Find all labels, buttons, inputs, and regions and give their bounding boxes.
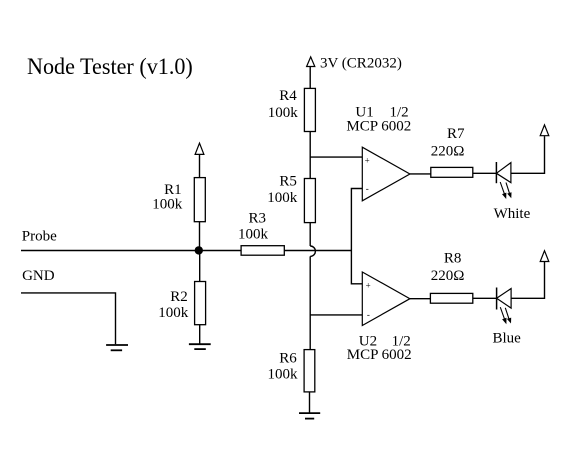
svg-text:Node Tester (v1.0): Node Tester (v1.0) — [27, 54, 193, 80]
ground R2 — [189, 343, 211, 345]
power flag above R1 — [195, 143, 204, 154]
wire GND lead — [21, 293, 116, 344]
LED blue arrows — [500, 307, 504, 319]
svg-text:220Ω: 220Ω — [431, 144, 465, 160]
svg-text:100k: 100k — [268, 105, 299, 121]
wire U2 output — [410, 298, 431, 300]
wire probe horizontal — [21, 250, 351, 252]
wire R2 to ground — [199, 325, 201, 345]
ground R6 — [299, 412, 320, 414]
svg-text:R8: R8 — [444, 251, 462, 267]
resistor R4 — [304, 88, 315, 131]
svg-text:100k: 100k — [267, 190, 298, 206]
svg-text:White: White — [494, 206, 531, 222]
svg-text:+: + — [366, 281, 371, 291]
svg-text:R4: R4 — [279, 88, 297, 104]
wire U1 plus input from R4/R5 node — [310, 156, 362, 158]
wire flag to R1 — [199, 155, 201, 178]
svg-text:220Ω: 220Ω — [431, 268, 465, 284]
svg-text:3V (CR2032): 3V (CR2032) — [320, 56, 402, 72]
svg-text:R3: R3 — [249, 211, 267, 227]
LED white: triangle — [496, 163, 511, 183]
svg-text:100k: 100k — [152, 196, 183, 212]
power flag blue LED — [540, 251, 549, 262]
wire R5 down to hop — [309, 223, 311, 246]
LED blue: triangle — [497, 289, 512, 309]
wire flag to R4 — [309, 67, 311, 89]
wire LED to power flag — [511, 136, 545, 173]
svg-text:R6: R6 — [279, 350, 297, 366]
wire U1 output — [410, 173, 431, 175]
svg-text:-: - — [367, 310, 370, 320]
resistor R3 — [241, 246, 284, 256]
op-amp U1 — [362, 147, 410, 201]
svg-text:MCP 6002: MCP 6002 — [346, 118, 411, 134]
svg-text:+: + — [365, 155, 370, 165]
resistor R7 — [431, 167, 473, 177]
ground GND — [106, 344, 128, 346]
op-amp U2 — [362, 272, 410, 326]
svg-text:R7: R7 — [447, 126, 465, 142]
wire R6 to ground — [309, 392, 311, 413]
resistor R8 — [430, 293, 472, 303]
svg-text:Blue: Blue — [493, 331, 522, 347]
LED blue: cathode bar — [496, 288, 498, 310]
wire hop over probe line — [310, 246, 315, 256]
wire R1 to probe — [199, 222, 201, 251]
svg-text:100k: 100k — [158, 305, 189, 321]
power flag 3V — [307, 57, 315, 67]
wire U1 minus input down to U2 plus input — [351, 189, 362, 284]
svg-text:-: - — [366, 184, 369, 194]
wire probe to R2 — [199, 251, 201, 282]
svg-text:MCP 6002: MCP 6002 — [347, 347, 412, 363]
svg-text:Probe: Probe — [22, 228, 57, 244]
LED white arrows — [500, 182, 504, 194]
wire U2 minus input from R5/R6 node — [310, 314, 362, 316]
node junction dot — [195, 246, 203, 254]
resistor R6 — [304, 350, 315, 392]
svg-text:R5: R5 — [279, 174, 297, 190]
resistor R5 — [304, 179, 315, 223]
wire R7 to LED — [473, 172, 497, 174]
svg-text:R2: R2 — [170, 289, 188, 305]
wire R4 to R5 — [309, 132, 311, 179]
svg-text:100k: 100k — [268, 367, 299, 383]
LED white: cathode bar — [495, 162, 497, 183]
wire hop to R6 — [309, 256, 311, 349]
power flag white LED — [540, 125, 549, 136]
wire LED to power flag — [511, 262, 544, 298]
svg-text:GND: GND — [22, 268, 55, 284]
svg-text:100k: 100k — [238, 227, 269, 243]
wire R8 to LED — [473, 297, 497, 299]
resistor R1 — [194, 178, 205, 222]
resistor R2 — [195, 282, 206, 325]
